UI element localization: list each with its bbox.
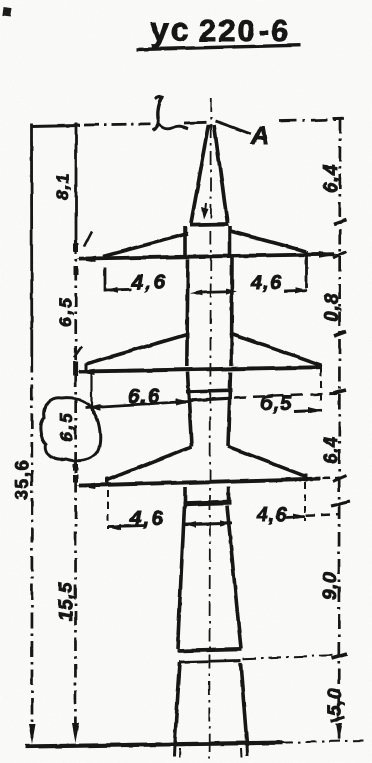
tick right y221	[334, 220, 347, 225]
dim crossing body c3	[184, 523, 232, 524]
trunk lower left edge	[175, 663, 181, 745]
crossarm3 left arrow	[76, 483, 95, 489]
svg-text:6,4: 6,4	[321, 164, 342, 193]
title underline	[137, 45, 300, 49]
svg-text:35,6: 35,6	[12, 459, 32, 500]
trunk upper right edge	[227, 506, 241, 649]
tick right y719	[331, 717, 346, 722]
crossarm2 bottom line	[79, 367, 322, 371]
tick right y503	[331, 502, 350, 507]
svg-text:6,5: 6,5	[57, 411, 76, 442]
peak right edge	[214, 125, 228, 223]
crossarm2 left end	[85, 363, 88, 372]
dim line 4,6 c3 left	[108, 526, 146, 527]
slash mark crossarm1 left	[84, 232, 92, 248]
box1 right edge	[228, 226, 232, 256]
ticks on inner line	[74, 243, 79, 252]
body right edge c1-c2	[230, 258, 234, 366]
corner speck	[2, 6, 11, 16]
crossarm3 top right slope	[228, 447, 306, 477]
right dimension line	[333, 117, 344, 120]
crossarm2 top right slope	[230, 334, 322, 366]
body left edge c2-c3	[188, 372, 192, 447]
centerline	[209, 98, 211, 744]
crossarm1 top left slope	[103, 234, 188, 257]
dim c1 right arrow	[284, 289, 307, 293]
dim line 6.6 left	[85, 402, 188, 408]
crossarm2 left arrow	[76, 369, 95, 375]
svg-text:4,6: 4,6	[129, 508, 165, 530]
trunk upper left edge	[178, 506, 185, 649]
body crossing bar dim	[188, 398, 231, 400]
level line to right y656	[243, 655, 339, 659]
peak left edge	[191, 125, 209, 223]
extension line crossarm2 left end	[90, 372, 92, 411]
break squiggle	[153, 97, 163, 131]
dim c3 right arrow	[286, 517, 305, 518]
crossarm1 right arrow	[319, 252, 339, 258]
box1 left edge	[183, 226, 187, 257]
body right edge c2-c3	[228, 372, 231, 447]
crossarm3 bottom dash to right	[322, 477, 338, 480]
svg-text:ус220-6: ус220-6	[150, 11, 290, 49]
arrow bottom left outer	[29, 724, 36, 744]
circled 6,5 blob	[40, 398, 100, 461]
trunk lower right edge	[241, 663, 248, 745]
crossarm1 top right slope	[230, 231, 306, 252]
centerline arrow in peak	[205, 203, 207, 216]
svg-text:4,6: 4,6	[250, 272, 282, 294]
arrow bar b5	[294, 410, 322, 411]
svg-text:А: А	[250, 122, 269, 150]
left leg below ground	[173, 744, 177, 757]
top reference line	[31, 126, 80, 127]
right leg below ground	[246, 744, 250, 756]
arrow bottom left inner	[72, 723, 79, 743]
trunk joint thick	[177, 649, 242, 651]
svg-text:0,8: 0,8	[322, 293, 343, 322]
box3 right edge	[227, 487, 231, 502]
right line bottom arrow	[335, 723, 342, 741]
body width arrows	[196, 292, 233, 293]
tick right line at crossarm1	[333, 252, 347, 259]
tick right line at crossarm3	[333, 476, 347, 482]
crossarm3 top left slope	[107, 447, 192, 481]
dim bracket c1 left horizontal	[105, 288, 131, 291]
ground dash-dot right	[282, 740, 368, 742]
left inner dimension line	[75, 123, 78, 240]
joint thick y503	[183, 503, 231, 505]
dim c3 dashes to right line	[306, 514, 338, 516]
svg-text:8,1: 8,1	[53, 173, 72, 200]
box3 left edge	[183, 487, 187, 502]
crossarm1 bottom line	[79, 254, 334, 258]
label A leader	[215, 121, 251, 134]
crossarm1 left arrow	[76, 256, 96, 262]
tick right y656	[332, 654, 348, 659]
dim bracket c1 left vertical	[104, 268, 107, 292]
crossarm3 left end	[106, 477, 109, 485]
crossarm3 right end	[305, 474, 308, 482]
foot marks	[179, 748, 182, 758]
svg-text:6,4: 6,4	[321, 436, 341, 464]
dim c1 right vertical	[305, 251, 308, 288]
body left edge c1-c2	[187, 259, 188, 366]
svg-text:15,5: 15,5	[56, 582, 77, 621]
svg-text:5,0: 5,0	[325, 688, 346, 716]
trunk joint second line	[180, 660, 242, 662]
body joint bar y391	[186, 390, 232, 391]
peak base	[190, 222, 228, 226]
tick right y333	[334, 332, 347, 337]
dashed extension c3 left	[107, 490, 109, 529]
tick right y392	[333, 390, 346, 394]
svg-text:6,5: 6,5	[56, 296, 75, 327]
ground line	[25, 743, 282, 747]
svg-text:4,6: 4,6	[130, 271, 168, 294]
svg-text:9,0: 9,0	[320, 572, 341, 600]
dashed extension c3 right	[304, 482, 306, 521]
dim line b5 right dashes	[234, 394, 337, 398]
left outer dimension line 35,6	[30, 123, 33, 356]
crossarm2 top left slope	[86, 335, 187, 365]
slash mark crossarm2 left	[74, 346, 82, 358]
svg-text:б,5: б,5	[260, 393, 292, 415]
svg-text:4,6: 4,6	[256, 504, 288, 526]
svg-text:6.6: 6.6	[128, 385, 160, 408]
dashed extension c2 right	[320, 369, 322, 405]
crossarm3 bottom line	[79, 479, 320, 486]
